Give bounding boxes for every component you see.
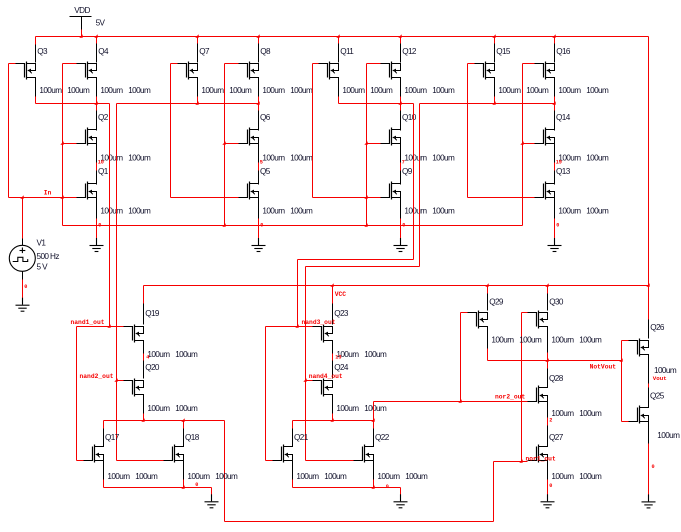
wire Q30 gate lead bbox=[522, 312, 528, 314]
svg-text:0: 0 bbox=[195, 482, 198, 488]
wire bottom nor1 row bbox=[225, 521, 494, 523]
transistor Q26 PMOS 100um bbox=[629, 323, 665, 356]
wire gate5 source row bbox=[104, 487, 212, 489]
transistor Q22 NMOS 100um bbox=[354, 433, 390, 462]
svg-text:100um: 100um bbox=[404, 206, 427, 215]
svg-text:Q6: Q6 bbox=[260, 113, 271, 122]
wire Q21 source drop bbox=[292, 461, 294, 488]
wire Q15 gate riser bbox=[467, 64, 469, 198]
node net 7 bbox=[401, 160, 405, 171]
svg-text:Q24: Q24 bbox=[334, 363, 349, 372]
wire nand1_out row bbox=[77, 326, 124, 328]
wire Q21 drain lead bbox=[292, 421, 294, 447]
svg-text:Q23: Q23 bbox=[334, 309, 349, 318]
svg-text:0: 0 bbox=[652, 464, 655, 470]
svg-text:13: 13 bbox=[335, 355, 341, 361]
svg-text:Q14: Q14 bbox=[556, 113, 571, 122]
svg-text:100um: 100um bbox=[296, 472, 319, 481]
svg-text:0: 0 bbox=[556, 222, 559, 228]
svg-text:100um: 100um bbox=[586, 153, 609, 162]
wire Q14 gate lead bbox=[523, 143, 535, 145]
svg-text:4: 4 bbox=[146, 355, 149, 361]
svg-text:Q27: Q27 bbox=[549, 433, 564, 442]
wire Q8 gate lead bbox=[225, 63, 239, 65]
node net 19 bbox=[555, 160, 562, 171]
wire Q12 gate lead bbox=[367, 63, 381, 65]
svg-text:100um: 100um bbox=[432, 206, 455, 215]
svg-text:0: 0 bbox=[549, 483, 552, 489]
wire Q18 source drop bbox=[183, 461, 185, 488]
wire nand2_out riser bbox=[116, 104, 118, 461]
transistor Q27 NMOS 100um bbox=[528, 433, 564, 462]
wire nand4 feeder riser bbox=[419, 104, 421, 267]
svg-text:100um: 100um bbox=[175, 350, 198, 359]
transistor Q2 NMOS 100um bbox=[77, 104, 152, 163]
transistor Q19 PMOS 100um bbox=[124, 309, 160, 342]
wire nand2 output row bbox=[117, 103, 259, 105]
wire VCC to Q19 drain bbox=[143, 286, 145, 325]
wire nand4 output row bbox=[420, 103, 555, 105]
wire Q7 gate riser bbox=[170, 64, 172, 198]
svg-text:100um: 100um bbox=[579, 472, 602, 481]
transistor Q9 NMOS 100um bbox=[381, 167, 456, 218]
wire Q13 gate lead bbox=[468, 197, 535, 199]
wire Q9 gate lead bbox=[313, 197, 381, 199]
svg-text:100um: 100um bbox=[39, 86, 62, 95]
wire nor1_out row bbox=[494, 461, 528, 463]
svg-text:100um: 100um bbox=[404, 86, 427, 95]
svg-text:In: In bbox=[44, 190, 52, 197]
transistor Q12 PMOS 100um bbox=[381, 37, 456, 104]
svg-text:100um: 100um bbox=[519, 335, 542, 344]
wire NotVout riser bbox=[621, 341, 623, 422]
svg-text:100um: 100um bbox=[229, 86, 252, 95]
transistor Q23 PMOS 100um bbox=[313, 309, 349, 342]
svg-text:nand1_out: nand1_out bbox=[71, 319, 105, 326]
svg-text:Q20: Q20 bbox=[145, 363, 160, 372]
svg-text:V1: V1 bbox=[37, 239, 47, 248]
svg-text:100um: 100um bbox=[290, 153, 313, 162]
wire Q1 gate lead from In bbox=[9, 197, 77, 199]
voltage source V1 500 Hz 5 V bbox=[9, 198, 59, 280]
svg-text:100um: 100um bbox=[364, 350, 387, 359]
wire nor1 drop bbox=[224, 421, 226, 522]
wire Q16 gate lead bbox=[523, 63, 535, 65]
svg-text:100um: 100um bbox=[551, 335, 574, 344]
ground below V1 bbox=[16, 298, 30, 312]
svg-text:100um: 100um bbox=[498, 86, 521, 95]
wire nand4 riser bbox=[305, 267, 307, 461]
svg-text:100um: 100um bbox=[579, 409, 602, 418]
node VDD rail junctions bbox=[79, 34, 555, 37]
svg-text:Q25: Q25 bbox=[650, 392, 665, 401]
wire gate5 ground drop net 0 bbox=[195, 482, 211, 495]
wire Q20 source drop bbox=[143, 395, 145, 421]
transistor Q25 NMOS 100um bbox=[629, 392, 665, 424]
svg-text:100um: 100um bbox=[364, 404, 387, 413]
wire nor2 output row bbox=[293, 420, 374, 422]
wire In riser B bbox=[366, 64, 368, 226]
wire In riser C bbox=[522, 64, 524, 226]
svg-text:100um: 100um bbox=[175, 404, 198, 413]
wire nand1 output row bbox=[36, 103, 110, 105]
wire VCC to Q29 drain bbox=[487, 286, 489, 311]
svg-text:100um: 100um bbox=[262, 86, 285, 95]
wire Q7 gate lead bbox=[171, 63, 178, 65]
svg-text:Q16: Q16 bbox=[556, 47, 571, 56]
svg-text:100um: 100um bbox=[135, 472, 158, 481]
wire Q17 gate lead bbox=[77, 460, 84, 462]
wire Q4 gate lead bbox=[63, 63, 77, 65]
wire nand3_out row bbox=[266, 326, 313, 328]
svg-text:100um: 100um bbox=[215, 472, 238, 481]
svg-text:100um: 100um bbox=[654, 366, 677, 375]
transistor Q8 PMOS 100um bbox=[239, 37, 314, 104]
wire Q25 source to ground net 0 bbox=[649, 422, 655, 497]
svg-text:100um: 100um bbox=[526, 86, 549, 95]
ground below Q25 bbox=[642, 494, 656, 508]
svg-text:100um: 100um bbox=[405, 472, 428, 481]
wire Q26 gate lead bbox=[622, 340, 629, 342]
wire Q1 source to ground bbox=[97, 219, 102, 239]
svg-text:100um: 100um bbox=[370, 86, 393, 95]
svg-text:Q19: Q19 bbox=[145, 309, 160, 318]
svg-text:100um: 100um bbox=[579, 335, 602, 344]
svg-text:Q29: Q29 bbox=[489, 297, 504, 306]
transistor Q5 NMOS 100um bbox=[239, 167, 314, 218]
svg-text:100um: 100um bbox=[147, 404, 170, 413]
svg-text:100um: 100um bbox=[336, 404, 359, 413]
wire VDD rail bbox=[36, 36, 649, 38]
wire Q23 source to Q24 drain bbox=[333, 341, 342, 379]
ground below gate6 bbox=[394, 494, 408, 508]
svg-text:Q7: Q7 bbox=[199, 47, 210, 56]
svg-text:Q4: Q4 bbox=[98, 47, 109, 56]
svg-text:10: 10 bbox=[98, 160, 104, 166]
wire Q3 gate lead bbox=[9, 63, 16, 65]
svg-text:nand3_out: nand3_out bbox=[302, 319, 336, 326]
svg-text:100um: 100um bbox=[290, 206, 313, 215]
transistor Q1 NMOS 100um bbox=[77, 167, 152, 218]
transistor Q4 PMOS 100um bbox=[77, 37, 152, 104]
svg-text:100um: 100um bbox=[551, 409, 574, 418]
wire nor1 riser bbox=[493, 462, 495, 522]
transistor Q14 NMOS 100um bbox=[535, 104, 610, 163]
wire Q28 source to Q27 drain net 2 bbox=[548, 402, 553, 447]
svg-text:100um: 100um bbox=[491, 335, 514, 344]
svg-text:Q1: Q1 bbox=[98, 167, 109, 176]
transistor Q13 NMOS 100um bbox=[535, 167, 610, 218]
node net 10 bbox=[97, 160, 104, 171]
transistor Q17 NMOS 100um bbox=[84, 433, 120, 462]
wire nand3 feeder riser bbox=[413, 104, 415, 260]
wire Q5 source to ground bbox=[259, 219, 264, 239]
wire Q20 gate lead bbox=[117, 380, 124, 382]
svg-text:nor1_out: nor1_out bbox=[526, 455, 556, 462]
svg-text:VCC: VCC bbox=[335, 291, 347, 298]
wire NotVout row bbox=[488, 360, 622, 362]
transistor Q28 NMOS 100um bbox=[528, 374, 564, 403]
svg-text:100um: 100um bbox=[324, 472, 347, 481]
transistor Q20 PMOS 100um bbox=[124, 363, 160, 396]
svg-text:100um: 100um bbox=[551, 472, 574, 481]
svg-text:5: 5 bbox=[260, 160, 263, 166]
svg-text:100um: 100um bbox=[377, 472, 400, 481]
node junctions bbox=[20, 101, 649, 488]
wire Q18 drain lead bbox=[183, 421, 185, 447]
wire nand4 feeder row bbox=[306, 266, 420, 268]
svg-text:Q8: Q8 bbox=[260, 47, 271, 56]
svg-text:Q2: Q2 bbox=[98, 113, 109, 122]
wire Q9 source to ground bbox=[401, 219, 406, 239]
ground below Q1 bbox=[90, 238, 104, 252]
svg-text:Q30: Q30 bbox=[549, 297, 564, 306]
transistor Q30 PMOS 100um bbox=[528, 297, 564, 328]
svg-text:Q18: Q18 bbox=[185, 433, 200, 442]
wire Q6 gate lead bbox=[225, 143, 239, 145]
wire nand3 output row bbox=[339, 103, 414, 105]
svg-text:100um: 100um bbox=[67, 86, 90, 95]
ground below Q27 bbox=[541, 494, 555, 508]
ground below Q5 bbox=[252, 238, 266, 252]
wire V1 minus to ground bbox=[23, 280, 28, 299]
wire Q26 source to Q25 drain Vout bbox=[649, 355, 667, 408]
transistor Q21 NMOS 100um bbox=[273, 433, 309, 462]
svg-text:100um: 100um bbox=[187, 472, 210, 481]
wire Q29 gate riser bbox=[460, 313, 462, 402]
transistor Q7 PMOS 100um bbox=[178, 37, 253, 104]
svg-text:100um: 100um bbox=[290, 86, 313, 95]
svg-text:100um: 100um bbox=[128, 86, 151, 95]
wire Q29 gate lead bbox=[461, 312, 468, 314]
svg-text:Q15: Q15 bbox=[496, 47, 511, 56]
svg-text:100um: 100um bbox=[100, 86, 123, 95]
svg-text:100um: 100um bbox=[657, 431, 680, 440]
wire Q15 gate lead bbox=[468, 63, 475, 65]
svg-text:Q22: Q22 bbox=[375, 433, 390, 442]
svg-text:100um: 100um bbox=[432, 86, 455, 95]
wire nand1_out drop to Q17 gate bbox=[76, 327, 78, 461]
wire Q30 source drop bbox=[547, 327, 549, 361]
wire Q17 drain lead bbox=[103, 421, 105, 447]
svg-text:100um: 100um bbox=[262, 153, 285, 162]
svg-text:Q11: Q11 bbox=[340, 47, 354, 56]
svg-text:0: 0 bbox=[24, 284, 27, 290]
wire Q8 gate riser bbox=[224, 64, 226, 226]
power symbol VDD 5V bbox=[70, 6, 106, 36]
wire Q17 source drop bbox=[103, 461, 105, 488]
wire Q29 source drop bbox=[487, 327, 489, 361]
wire nand3 feeder row bbox=[298, 259, 414, 261]
svg-text:Q26: Q26 bbox=[650, 323, 665, 332]
svg-text:Q13: Q13 bbox=[556, 167, 571, 176]
wire nand1_out riser bbox=[109, 104, 111, 327]
svg-text:100um: 100um bbox=[432, 153, 455, 162]
ground below Q9 bbox=[394, 238, 408, 252]
svg-text:100um: 100um bbox=[128, 153, 151, 162]
wire VDD rail right drop bbox=[648, 37, 650, 320]
svg-text:100um: 100um bbox=[558, 206, 581, 215]
svg-text:NotVout: NotVout bbox=[590, 363, 617, 370]
svg-text:7: 7 bbox=[402, 160, 405, 166]
ground below Q13 bbox=[548, 238, 562, 252]
wire nor1 output row bbox=[104, 420, 225, 422]
svg-text:100um: 100um bbox=[262, 206, 285, 215]
svg-text:Q17: Q17 bbox=[105, 433, 120, 442]
svg-text:Vout: Vout bbox=[653, 375, 667, 382]
wire In riser A bbox=[62, 64, 64, 226]
svg-text:2: 2 bbox=[549, 418, 552, 424]
svg-text:Q5: Q5 bbox=[260, 167, 271, 176]
svg-text:100um: 100um bbox=[558, 86, 581, 95]
wire Q22 source drop bbox=[373, 461, 375, 488]
wire Q24 gate lead bbox=[306, 380, 313, 382]
svg-text:nand2_out: nand2_out bbox=[80, 373, 114, 380]
wire Q18 gate lead bbox=[117, 460, 164, 462]
transistor Q16 PMOS 100um bbox=[535, 37, 610, 104]
wire Q25 gate lead bbox=[622, 421, 629, 423]
wire Q24 source drop bbox=[332, 395, 334, 421]
wire Q22 drain lead bbox=[373, 402, 375, 447]
svg-text:100um: 100um bbox=[342, 86, 365, 95]
svg-text:Q3: Q3 bbox=[37, 47, 48, 56]
svg-text:100um: 100um bbox=[201, 86, 224, 95]
wire Q5 gate lead bbox=[171, 197, 239, 199]
ground below gate5 bbox=[205, 494, 219, 508]
transistor Q3 PMOS 100um bbox=[16, 37, 91, 104]
svg-text:19: 19 bbox=[556, 160, 562, 166]
wire Q13 source to ground bbox=[555, 219, 560, 239]
svg-text:nand4_out: nand4_out bbox=[309, 373, 343, 380]
wire Q11 gate lead bbox=[313, 63, 319, 65]
svg-text:100um: 100um bbox=[586, 86, 609, 95]
transistor Q10 NMOS 100um bbox=[381, 104, 456, 163]
transistor Q15 PMOS 100um bbox=[475, 37, 550, 104]
wire Q3 gate riser bbox=[8, 64, 10, 198]
wire nand3 riser bbox=[297, 260, 299, 327]
wire Q27 source drop bbox=[547, 461, 549, 496]
wire VCC row bbox=[144, 285, 649, 287]
transistor Q24 PMOS 100um bbox=[313, 363, 349, 396]
svg-text:100um: 100um bbox=[586, 206, 609, 215]
svg-text:100um: 100um bbox=[128, 206, 151, 215]
wire VCC to Q30 drain bbox=[547, 286, 549, 311]
svg-text:100um: 100um bbox=[147, 350, 170, 359]
wire Q19 source to Q20 drain bbox=[144, 341, 150, 379]
wire rail drop to Q26 drain bbox=[648, 320, 650, 339]
svg-text:Q9: Q9 bbox=[402, 167, 413, 176]
wire VCC to Q23 drain bbox=[332, 286, 334, 325]
transistor Q29 PMOS 100um bbox=[468, 297, 504, 328]
wire Q11 gate riser bbox=[312, 64, 314, 198]
node net 5 bbox=[259, 160, 263, 171]
wire Q2 gate lead bbox=[63, 143, 77, 145]
svg-text:500 Hz: 500 Hz bbox=[37, 252, 60, 261]
wire Q21 gate lead bbox=[266, 460, 273, 462]
wire NotVout row to Q28 drain bbox=[547, 361, 549, 388]
transistor Q18 NMOS 100um bbox=[164, 433, 200, 462]
svg-text:100um: 100um bbox=[107, 472, 130, 481]
svg-text:Q28: Q28 bbox=[549, 374, 564, 383]
svg-text:5V: 5V bbox=[96, 18, 106, 27]
wire Q22 gate lead bbox=[306, 460, 354, 462]
svg-text:Q21: Q21 bbox=[294, 433, 309, 442]
svg-text:5 V: 5 V bbox=[37, 262, 49, 271]
svg-text:100um: 100um bbox=[404, 153, 427, 162]
svg-text:100um: 100um bbox=[100, 206, 123, 215]
transistor Q11 PMOS 100um bbox=[319, 37, 394, 104]
wire In bus row bbox=[63, 225, 523, 227]
wire Q10 gate lead bbox=[367, 143, 381, 145]
svg-text:Q12: Q12 bbox=[402, 47, 417, 56]
wire Q30 gate riser bbox=[521, 313, 523, 462]
svg-text:nor2_out: nor2_out bbox=[495, 394, 525, 401]
transistor Q6 NMOS 100um bbox=[239, 104, 314, 163]
wire gate6 source row bbox=[293, 487, 401, 489]
svg-text:Q10: Q10 bbox=[402, 113, 417, 122]
wire gate6 ground drop net 0 bbox=[386, 484, 401, 495]
wire Q21 gate riser bbox=[265, 327, 267, 461]
svg-text:VDD: VDD bbox=[74, 6, 90, 15]
wire nor2_out row bbox=[374, 401, 528, 403]
svg-text:0: 0 bbox=[386, 484, 389, 490]
